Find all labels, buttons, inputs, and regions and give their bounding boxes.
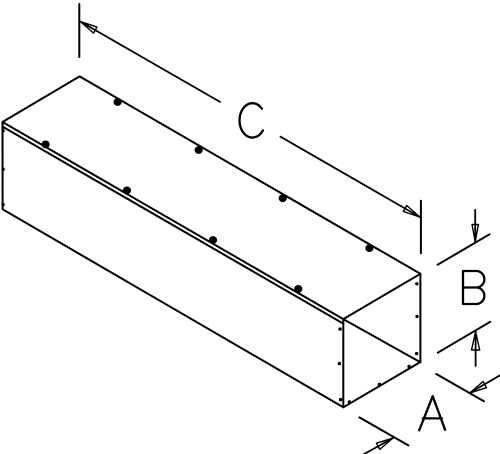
wireway top face xyxy=(3,76,421,319)
dimension B bottom extension line xyxy=(438,322,490,353)
dimension C left extension line xyxy=(78,4,80,57)
cover screw 2 back row xyxy=(195,146,203,154)
cover screw 1 back row xyxy=(114,98,122,106)
dimension C left arrowhead xyxy=(81,22,98,33)
dimension C right arrowhead xyxy=(403,206,420,218)
hole front right edge 3 xyxy=(339,398,342,401)
label C xyxy=(240,103,263,137)
cover screw 2 front row xyxy=(123,187,131,195)
cover fold line (double edge along front of top face) xyxy=(3,127,344,324)
dimension C right extension line xyxy=(420,201,422,254)
hole end face bottom 2 xyxy=(378,383,381,386)
wireway front face xyxy=(3,122,344,407)
cover screw 4 back row xyxy=(365,244,373,252)
hole end face right 1 xyxy=(415,282,418,285)
cover screw 3 front row xyxy=(209,236,217,244)
hole left edge 1 xyxy=(1,129,4,132)
dimension B bottom arrow xyxy=(475,332,477,366)
label A xyxy=(419,396,445,430)
hole front right edge 1 xyxy=(338,327,341,330)
end face diagonal (cover edge) xyxy=(343,319,420,362)
dimension A lower extension line xyxy=(359,417,408,445)
cover screw 4 front row xyxy=(294,285,302,293)
hole end face bottom 3 xyxy=(407,365,410,368)
dimension A lower arrow xyxy=(362,438,394,454)
dimension B top extension line xyxy=(438,234,490,264)
dimension A upper arrow xyxy=(470,375,500,393)
hole end face right 3 xyxy=(415,352,418,355)
hole left edge 3 xyxy=(1,203,4,206)
dimension A upper extension line xyxy=(436,374,484,401)
cover screw 3 back row xyxy=(279,194,287,202)
label B xyxy=(463,271,484,304)
dimension B top arrow xyxy=(474,210,476,242)
hole left edge 2 xyxy=(1,168,4,171)
hole end face right 2 xyxy=(415,315,418,318)
dimension C line segment 2 xyxy=(281,137,420,217)
dimension C line segment 1 xyxy=(81,22,221,102)
hole front right edge 2 xyxy=(338,362,341,365)
hole end face bottom 1 xyxy=(348,400,351,403)
cover screw 1 front row xyxy=(42,141,50,149)
wireway right end face xyxy=(343,274,420,408)
